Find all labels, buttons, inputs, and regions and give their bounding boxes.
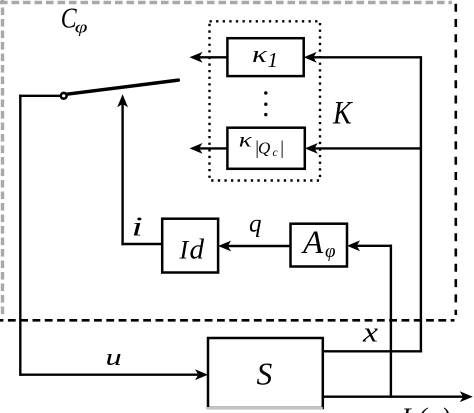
dashed C_phi bottom boundary [0,319,455,322]
svg-text:K: K [332,94,353,131]
svg-text:φ: φ [325,241,336,262]
wire u into S [20,369,208,380]
block S [208,338,323,408]
svg-text:κ: κ [239,128,252,152]
wire x feedback into kappa_|Qc| [305,143,421,154]
svg-text:d: d [190,234,205,266]
svg-text:Q: Q [258,139,270,158]
wire x feedback into kappa_1 [304,52,421,63]
switch pivot circle [61,93,67,99]
block Id [162,219,218,273]
block kappa_|Qc| [227,128,304,169]
svg-text:S: S [257,357,273,392]
svg-text:κ: κ [252,41,268,68]
wire Id output [121,243,163,245]
wire x into A_phi [347,240,392,251]
wire kappa_1 output arrow [190,52,228,63]
crop boundary gray dashed top [0,1,452,4]
svg-text:1: 1 [268,48,279,72]
wire right vertical feedback [420,56,422,352]
selector up arrow [117,94,128,245]
block A_phi [291,224,348,267]
svg-text:i: i [132,212,143,242]
wire mid vertical from output to A_phi [390,245,392,398]
block kappa_1 [227,38,303,76]
switch lever [67,80,179,94]
svg-text:A: A [301,225,324,261]
gray bottom edge of S [207,407,323,410]
svg-text:u: u [106,345,122,371]
svg-text:φ: φ [75,18,88,37]
svg-text:q: q [249,211,262,238]
wire output with arrow [323,391,473,402]
svg-text:|: | [279,139,284,159]
wire kappa_|Qc| output arrow [190,143,228,154]
wire S top-right to feedback riser [323,350,422,352]
vdots [264,91,267,116]
svg-text:L(x): L(x) [401,403,452,413]
wire left vertical down [19,95,21,376]
label C_phi [61,1,88,36]
dashed C_phi right boundary [454,0,457,315]
dotted box K boundary [210,21,321,180]
switch pivot wire to left [19,95,60,97]
wire A_phi to Id arrow [218,241,290,252]
crop boundary gray dashed left [1,0,4,318]
svg-text:c: c [273,147,278,159]
svg-text:I: I [179,236,190,265]
